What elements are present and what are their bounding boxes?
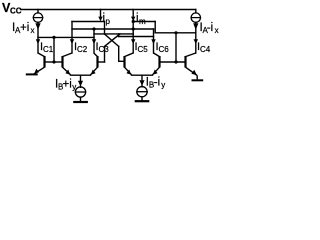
svg-text:CC: CC — [10, 7, 22, 16]
node dot bases Q4Q6 — [174, 31, 177, 34]
arrow ip — [98, 17, 102, 22]
arrowheads — [34, 17, 198, 87]
arrow IC1 — [36, 39, 40, 44]
svg-text:y: y — [161, 81, 165, 90]
wire node B horizontal — [155, 32, 196, 34]
node dot bases Q1Q2 — [52, 36, 55, 39]
wire Q2 collector vertical — [71, 22, 73, 54]
label IC3 — [96, 41, 110, 54]
wire node A horizontal — [38, 36, 94, 38]
transistor Q5 — [125, 53, 134, 75]
arrow Q5 emitter — [126, 70, 131, 75]
wire X BL riser to Q3 base — [104, 46, 106, 62]
wire Q6-Q4 base line — [160, 61, 186, 63]
arrow im — [131, 17, 135, 22]
arrow IC2 — [70, 39, 74, 44]
node dot H4 x94 — [92, 27, 95, 30]
wire X diagonal A (TL-BR) — [104, 34, 118, 47]
svg-text:x: x — [215, 26, 219, 35]
ground Q1 emitter — [26, 73, 38, 75]
label im — [136, 13, 146, 26]
transistor Q2 — [63, 53, 73, 75]
current source IA-ix — [191, 13, 200, 22]
label IA-ix — [200, 22, 219, 35]
node VCC rail — [21, 9, 196, 11]
arrow IB+iy — [78, 81, 83, 87]
wire VCC to left source — [37, 10, 39, 13]
arrow Q1 emitter — [34, 69, 39, 74]
wire Q1 base line — [45, 61, 55, 63]
transistor Q1 — [34, 53, 45, 74]
wire Q5 base line — [119, 60, 125, 62]
wire ip corner down to X — [104, 22, 106, 34]
node dot base junction Q1Q2 — [52, 60, 55, 63]
svg-text:+i: +i — [20, 22, 29, 34]
ground Q4 emitter — [192, 79, 204, 81]
wire Q1/Q2 base riser — [53, 37, 55, 62]
svg-text:C5: C5 — [138, 45, 149, 54]
wire right emitter rail — [132, 74, 153, 76]
ground bar right tail — [136, 100, 148, 102]
current source IB+iy — [75, 87, 85, 97]
svg-text:C3: C3 — [99, 45, 110, 54]
label IC5 — [135, 41, 149, 54]
wire left emitter rail — [71, 74, 91, 76]
svg-text:m: m — [139, 17, 146, 26]
wire X BR riser to Q5 base — [118, 46, 120, 61]
transistor Q6 — [153, 53, 160, 75]
wire left tail down — [80, 75, 82, 87]
arrow IA+ix — [35, 23, 40, 30]
wire rail H5 — [94, 33, 133, 35]
wire ip from VCC — [100, 10, 102, 18]
label IC6 — [156, 41, 170, 54]
wire Q6 collector vertical — [154, 22, 156, 33]
wire right source down to Q4 collector — [195, 22, 197, 53]
transistor Q3 — [91, 53, 98, 75]
label IC2 — [74, 41, 88, 54]
arrow IC6 — [151, 39, 155, 44]
svg-text:C4: C4 — [200, 45, 211, 54]
svg-text:x: x — [31, 26, 35, 35]
svg-text:C2: C2 — [77, 45, 88, 54]
ground bar left tail — [74, 101, 87, 103]
wire Q2 base line — [54, 61, 63, 63]
svg-text:C6: C6 — [159, 45, 170, 54]
svg-text:y: y — [72, 83, 76, 92]
current source IB-iy — [137, 87, 147, 97]
svg-text:+i: +i — [63, 79, 72, 91]
arrow Q2 emitter — [65, 70, 70, 75]
label IA+ix — [12, 22, 35, 35]
label IB+iy — [55, 79, 76, 92]
wire rail H4 — [72, 28, 154, 30]
wire VCC corner to right source — [195, 10, 197, 13]
svg-text:-i: -i — [207, 22, 213, 34]
arrow Q4 emitter — [191, 70, 197, 76]
label VCC — [2, 1, 22, 16]
wire im / Q5 collector feed from VCC — [132, 10, 134, 54]
current source IA+ix — [33, 13, 42, 22]
wire Q3 base line — [98, 61, 105, 63]
node dot base junction Q4Q6 — [174, 60, 177, 63]
wire X top-right stub — [118, 34, 120, 37]
wire rail ip horizontal — [72, 21, 105, 23]
svg-text:p: p — [106, 17, 111, 26]
arrow IC4 — [194, 39, 198, 44]
node dot im corner — [132, 20, 135, 23]
arrow IC3 — [92, 39, 96, 44]
arrow IC5 — [131, 39, 135, 44]
label IB-iy — [146, 77, 165, 90]
wire left source down to Q1 collector (node A) — [37, 22, 39, 53]
label IC4 — [197, 41, 211, 54]
wire Q4/Q6 base riser — [175, 33, 177, 62]
svg-text:-i: -i — [154, 77, 160, 89]
wire right tail down — [141, 75, 143, 87]
label IC1 — [40, 41, 54, 54]
label ip — [103, 13, 111, 26]
arrow IB-iy — [139, 80, 144, 86]
junction dots — [52, 20, 177, 64]
svg-text:C1: C1 — [43, 45, 54, 54]
wire Q3 collector vertical — [93, 29, 95, 53]
wire H9 — [119, 36, 154, 38]
arrow Q6 emitter — [153, 70, 158, 75]
arrow IA-ix — [193, 23, 198, 30]
wire X diagonal B (TR-BL) — [105, 34, 121, 47]
arrow Q3 emitter — [91, 70, 96, 75]
node dot H4 x132.5 — [132, 27, 135, 30]
transistor Q4 — [186, 53, 198, 79]
wire rail im horizontal — [133, 21, 155, 23]
